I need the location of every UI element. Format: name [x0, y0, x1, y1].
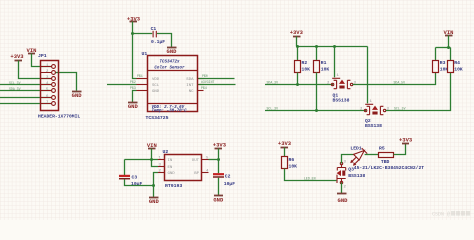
- svg-text:GND: GND: [152, 90, 160, 94]
- wire C3 top drop: [124, 160, 126, 176]
- svg-text:GND: GND: [338, 197, 349, 204]
- wire JP1 pin5 SDA_3V to left edge: [0, 90, 52, 92]
- wire INT net stub: [199, 84, 236, 86]
- wire 3V3 pull-up bus: [298, 46, 368, 48]
- ground (C1): [167, 48, 178, 55]
- wire 3V3 supply drop: [218, 149, 220, 160]
- junction VIN / IN / C3: [150, 158, 153, 161]
- svg-text:NC: NC: [189, 90, 194, 94]
- transistor Q2 BSS138: [360, 100, 390, 129]
- svg-text:Temp: -30-70°C: Temp: -30-70°C: [152, 108, 188, 113]
- wire SDA_3V to Q1: [265, 84, 333, 86]
- svg-text:P$4: P$4: [201, 86, 207, 90]
- svg-text:VDD: VDD: [152, 78, 160, 82]
- svg-text:GND: GND: [167, 48, 178, 55]
- wire JP1 pin2 to ground: [55, 73, 76, 91]
- ground (Q3): [337, 194, 348, 204]
- wire bus to R4: [450, 48, 452, 61]
- wire C2 top drop: [218, 160, 220, 174]
- svg-text:EN: EN: [168, 166, 173, 170]
- svg-text:IN: IN: [168, 159, 173, 163]
- svg-text:LED_EN: LED_EN: [304, 176, 316, 180]
- ground (C2): [213, 196, 224, 204]
- wire +3V3 to R6: [284, 148, 286, 157]
- svg-text:+3V3: +3V3: [278, 140, 292, 147]
- svg-text:45-21/LK2C-B38452C4CN2/2T: 45-21/LK2C-B38452C4CN2/2T: [354, 165, 425, 171]
- svg-text:+3V3: +3V3: [290, 29, 304, 36]
- svg-text:OUT: OUT: [192, 159, 200, 163]
- svg-text:#3V3INT: #3V3INT: [201, 80, 214, 84]
- wire SCL_3V to Q2: [265, 110, 366, 112]
- supply VIN (left of JP1): [27, 47, 37, 54]
- wire SCL stub to left: [107, 84, 137, 86]
- junction C3 / GND: [152, 184, 155, 187]
- wire IN node: [125, 159, 159, 161]
- junction (3V3 / C1 / VDD): [131, 32, 134, 35]
- wire LED to R5: [365, 154, 379, 156]
- transistor Q3 BSS138: [337, 161, 366, 190]
- svg-text:10K: 10K: [454, 66, 463, 72]
- svg-text:SCL_5V: SCL_5V: [394, 106, 406, 110]
- svg-text:P$2: P$2: [130, 80, 136, 84]
- svg-text:R5: R5: [379, 146, 385, 152]
- junction R2 / SDA_3V: [296, 83, 299, 86]
- svg-text:SCL: SCL: [152, 84, 160, 88]
- wire Q1 gate drop: [334, 47, 336, 78]
- svg-text:P$0: P$0: [202, 74, 208, 78]
- svg-text:P$1: P$1: [137, 74, 143, 78]
- resistor R3: [433, 60, 449, 72]
- resistor R2: [295, 60, 311, 72]
- resistor R1: [314, 60, 330, 72]
- wire JP1 pin7 to left edge: [0, 103, 52, 105]
- pin 1 (JP1): [46, 64, 55, 69]
- svg-text:SCL_3V: SCL_3V: [9, 81, 21, 85]
- supply VIN (right): [444, 29, 454, 36]
- wire R6 to Q3 gate LED_EN: [285, 169, 337, 181]
- svg-text:R6: R6: [289, 157, 295, 163]
- svg-text:R1: R1: [321, 60, 327, 66]
- pin 2 (JP1): [46, 70, 55, 75]
- wire bus to R2: [297, 47, 299, 61]
- svg-text:C2: C2: [225, 173, 231, 179]
- svg-text:+3V3: +3V3: [10, 53, 24, 60]
- supply +3V3 (U2 out): [213, 142, 227, 149]
- svg-text:CSDN @: CSDN @: [432, 212, 450, 218]
- pin stub INT (U1): [198, 84, 205, 86]
- supply VIN (above U2): [147, 142, 157, 149]
- capacitor C1: [151, 26, 166, 45]
- junction R1 top: [315, 45, 318, 48]
- wire VIN pull-up bus: [436, 47, 451, 49]
- junction OUT / 3V3 / C2: [217, 158, 220, 161]
- wire EN tie to VIN: [152, 160, 159, 167]
- svg-text:BSS138: BSS138: [348, 173, 365, 179]
- ground (U1): [128, 103, 139, 111]
- wire JP1 pin4 SCL_3V to left edge: [0, 84, 52, 86]
- pin stub NC (U1): [198, 90, 204, 92]
- svg-text:C1: C1: [151, 26, 157, 32]
- wire Q3 drain up to LED: [342, 155, 354, 164]
- wire junction to C1: [133, 33, 153, 35]
- LED LED1: [350, 146, 367, 166]
- wire bus to R1: [316, 47, 318, 61]
- svg-text:10K: 10K: [302, 66, 311, 72]
- resistor R4: [448, 60, 463, 72]
- svg-text:0.1µF: 0.1µF: [151, 39, 165, 45]
- svg-text:GND: GND: [168, 172, 176, 176]
- svg-text:SDA_3V: SDA_3V: [9, 87, 21, 91]
- transistor Q1 BSS138: [327, 74, 357, 103]
- svg-text:P$3: P$3: [130, 86, 136, 90]
- svg-text:INT: INT: [186, 84, 194, 88]
- wire U1 GND to ground: [133, 91, 137, 103]
- svg-text:GND: GND: [149, 198, 160, 205]
- svg-text:GND: GND: [213, 196, 224, 203]
- junction Q1 gate: [333, 45, 336, 48]
- svg-text:TBD: TBD: [381, 159, 390, 165]
- pin stub GND (U1): [137, 90, 148, 92]
- wire R1 bottom to SCL_3V: [316, 73, 318, 111]
- wire +3V3 down to junction: [132, 22, 134, 34]
- svg-text:SDA_5V: SDA_5V: [394, 80, 406, 84]
- wire C2 bottom to ground: [218, 178, 220, 196]
- resistor R6: [282, 157, 298, 170]
- junction R1 / SCL_3V: [315, 109, 318, 112]
- svg-text:C3: C3: [132, 174, 138, 180]
- svg-text:TCS3472x: TCS3472x: [159, 61, 180, 65]
- svg-text:RT9193: RT9193: [165, 183, 182, 189]
- wire SDA net stub: [199, 78, 235, 80]
- junction R2 top: [296, 45, 299, 48]
- svg-text:+3V3: +3V3: [213, 142, 227, 149]
- pin 7 (JP1): [46, 101, 55, 106]
- svg-text:SCL_3V: SCL_3V: [267, 106, 279, 110]
- capacitor C3: [119, 174, 142, 186]
- svg-text:JP1: JP1: [38, 53, 47, 59]
- svg-text:Color Sensor: Color Sensor: [154, 65, 185, 70]
- pin 6 (JP1): [46, 95, 55, 100]
- supply +3V3 (above U1): [127, 15, 141, 22]
- wire JP1 pin6 to left edge: [0, 97, 52, 99]
- capacitor C2: [213, 173, 235, 186]
- svg-text:10K: 10K: [321, 66, 330, 72]
- wire +3V3 down to bus: [296, 37, 298, 47]
- wire Q2 drain SCL_5V: [386, 73, 451, 111]
- ground (JP1): [72, 92, 83, 100]
- pin stub GND (U2): [158, 172, 165, 174]
- svg-text:R3: R3: [440, 60, 446, 66]
- pin stub SDA (U1): [198, 78, 205, 80]
- wire R5 to +3V3: [394, 144, 406, 155]
- wire R2 bottom to SDA_3V: [297, 73, 299, 85]
- wire OUT to 3V3 node: [209, 159, 219, 161]
- supply +3V3 (LED): [399, 137, 413, 144]
- connector JP1: [38, 53, 59, 110]
- svg-text:R4: R4: [454, 60, 460, 66]
- pin stub SCL (U1): [137, 84, 148, 86]
- IC U1 box: [142, 51, 198, 112]
- ground (U2): [149, 198, 160, 206]
- svg-text:+3V3: +3V3: [399, 137, 413, 144]
- supply +3V3 (left of JP1): [10, 53, 24, 61]
- svg-text:10µF: 10µF: [224, 181, 235, 187]
- wire VIN to JP1 pin1: [32, 54, 52, 67]
- wire VIN down to IN node: [151, 149, 153, 160]
- svg-text:TCS34725: TCS34725: [146, 115, 169, 121]
- wire junction down to U1 VDD: [133, 34, 137, 79]
- svg-text:LED1: LED1: [350, 146, 361, 152]
- wire Q2 gate drop: [367, 47, 369, 104]
- pin 3 (JP1): [46, 76, 55, 81]
- svg-text:BSS138: BSS138: [333, 98, 350, 104]
- svg-text:10K: 10K: [289, 163, 298, 169]
- wire +3V3 to JP1 pin3: [19, 61, 52, 79]
- pin stub OUT (U2): [202, 159, 209, 161]
- wire bus to R3: [435, 48, 437, 61]
- svg-text:HEADER-1X770MIL: HEADER-1X770MIL: [38, 114, 80, 120]
- svg-text:SDA: SDA: [186, 78, 194, 82]
- svg-text:R2: R2: [302, 60, 308, 66]
- pin 4 (JP1): [46, 82, 55, 87]
- pin stub BP (U2): [202, 172, 209, 174]
- svg-text:BSS138: BSS138: [365, 123, 382, 129]
- pin stub VDD (U1): [137, 78, 148, 80]
- svg-text:SDA_3V: SDA_3V: [267, 80, 279, 84]
- wire Q1 drain SDA_5V: [353, 73, 436, 85]
- pin stub EN (U2): [158, 166, 165, 168]
- watermark CSDN: [432, 211, 470, 218]
- svg-text:U1: U1: [142, 51, 148, 57]
- IC U2 box: [163, 149, 202, 181]
- wire C3 bottom to GND rail: [125, 179, 154, 185]
- wire Q3 source to ground: [341, 183, 343, 194]
- wire C1 to ground: [157, 34, 172, 48]
- wire U2 GND to ground: [154, 173, 159, 198]
- svg-text:GND: GND: [72, 92, 83, 99]
- supply +3V3 (level shifter): [290, 29, 304, 37]
- svg-text:BP: BP: [194, 172, 199, 176]
- pin 5 (JP1): [46, 88, 55, 93]
- supply +3V3 (R6): [278, 140, 292, 147]
- resistor R5: [379, 146, 394, 166]
- svg-text:GND: GND: [128, 103, 139, 110]
- wire VIN down to bus: [448, 36, 450, 48]
- pin stub IN (U2): [158, 159, 165, 161]
- junction VIN bus: [447, 46, 450, 49]
